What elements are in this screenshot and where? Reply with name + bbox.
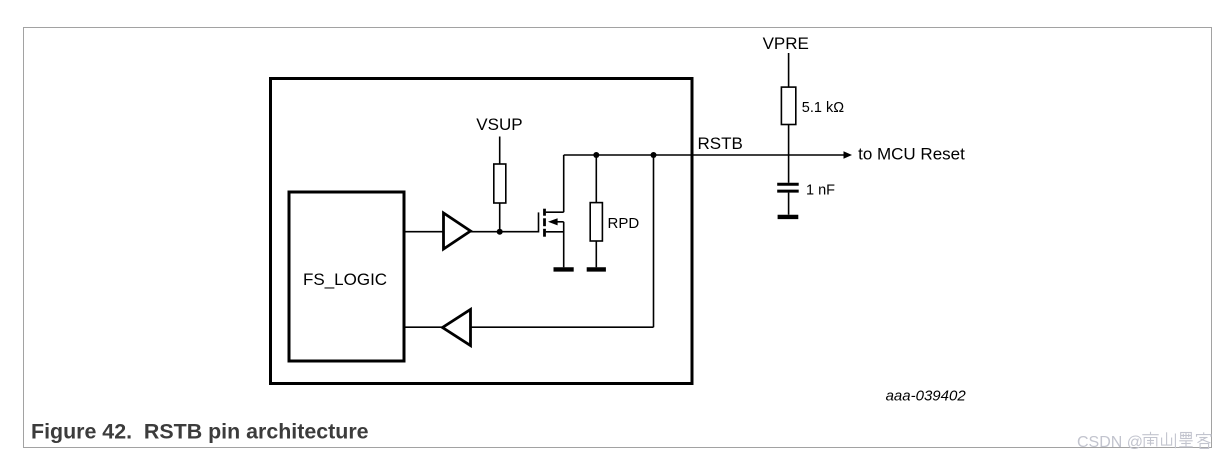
svg-text:VSUP: VSUP xyxy=(476,115,522,134)
svg-text:Figure 42. RSTB pin architect: Figure 42. RSTB pin architecture xyxy=(31,419,369,443)
svg-text:VPRE: VPRE xyxy=(763,34,809,53)
svg-text:FS_LOGIC: FS_LOGIC xyxy=(303,270,387,289)
svg-text:CSDN @: CSDN @ xyxy=(1077,434,1143,451)
svg-text:RPD: RPD xyxy=(608,215,640,232)
svg-text:aaa-039402: aaa-039402 xyxy=(886,388,967,405)
svg-text:1 nF: 1 nF xyxy=(806,182,835,198)
svg-text:RSTB: RSTB xyxy=(698,134,743,153)
svg-text:5.1 kΩ: 5.1 kΩ xyxy=(802,100,844,116)
svg-text:to MCU Reset: to MCU Reset xyxy=(858,144,965,163)
